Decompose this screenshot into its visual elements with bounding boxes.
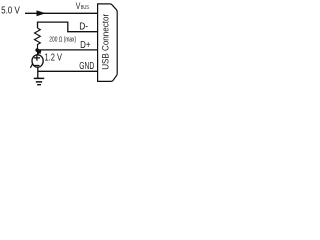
svg-text:D-: D- xyxy=(79,22,88,33)
svg-text:200 Ω (max): 200 Ω (max) xyxy=(49,36,76,43)
svg-text:1.2 V: 1.2 V xyxy=(45,52,63,63)
svg-text:D+: D+ xyxy=(80,40,91,51)
svg-text:USB Connector: USB Connector xyxy=(100,14,110,70)
svg-text:GND: GND xyxy=(79,61,94,72)
svg-text:BUS: BUS xyxy=(81,5,89,11)
svg-text:5.0 V: 5.0 V xyxy=(1,6,20,17)
